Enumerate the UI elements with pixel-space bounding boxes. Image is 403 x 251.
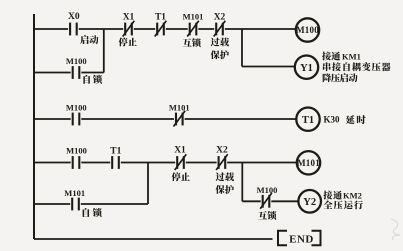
branch 3 vertical junction wire (147, 163, 149, 205)
note line 2: full-voltage run (323, 200, 363, 209)
svg-text:T1: T1 (155, 13, 166, 23)
label tingzhi (stop) rung3 (172, 172, 190, 181)
contact X1 (NC) stop rung3 (174, 146, 186, 171)
label zisuo (self-lock) (83, 75, 102, 84)
svg-text:M100: M100 (66, 102, 87, 112)
contact M101 (NO) self-hold (64, 188, 85, 210)
rung 3 wire (34, 162, 298, 164)
branch 1 vertical junction wire (103, 29, 105, 73)
svg-text:M101: M101 (64, 188, 85, 198)
contact M100 (NO) self-hold (66, 56, 87, 79)
svg-text:M101: M101 (169, 102, 190, 112)
left power rail (33, 14, 35, 239)
label baohu rung3 (216, 185, 234, 194)
contact X0 (NO) start button (68, 12, 80, 35)
Y2 branch horizontal wire (242, 200, 298, 202)
contact X2 (NC) overload protection (214, 13, 226, 37)
END right bracket (312, 231, 321, 246)
label baohu (protection) (211, 50, 229, 59)
svg-text:M100: M100 (66, 56, 87, 66)
svg-text:K30: K30 (324, 115, 341, 125)
contact M101 (NC) rung2 (169, 102, 190, 126)
svg-text:X0: X0 (68, 12, 80, 22)
Y2 branch vertical wire (241, 163, 243, 202)
svg-text:KM2: KM2 (343, 191, 362, 201)
svg-text:X2: X2 (214, 13, 226, 23)
svg-text:M100: M100 (257, 185, 278, 195)
note: K30 delay (324, 115, 366, 125)
contact T1 (NO) rung3 (110, 147, 121, 169)
contact X2 (NC) overload rung3 (216, 146, 228, 171)
contact M100 (NO) rung2 (66, 102, 87, 125)
note line 1: jietong KM1 (322, 51, 361, 61)
note line 1: jietong KM2 (323, 191, 362, 201)
label husuo (interlock) (183, 38, 201, 47)
coil M101 (297, 151, 320, 174)
svg-text:Y2: Y2 (303, 197, 316, 208)
faint scan scribble bottom right (391, 219, 400, 240)
svg-text:KM1: KM1 (342, 51, 361, 61)
coil T1 timer (296, 108, 319, 131)
svg-text:X1: X1 (123, 13, 135, 23)
svg-text:T1: T1 (110, 147, 121, 157)
coil Y1 (295, 55, 318, 78)
contact M100 (NC) interlock Y2 (257, 185, 278, 209)
Y1 branch vertical wire (241, 29, 243, 67)
svg-text:M101: M101 (297, 158, 320, 168)
coil M100 (296, 18, 319, 41)
rung 2 wire (34, 118, 297, 120)
END rung wire (34, 238, 273, 240)
note line 2: series auto-transformer (323, 62, 391, 71)
svg-text:X1: X1 (174, 146, 186, 156)
contact T1 (NC) (155, 13, 167, 37)
contact M100 (NO) rung3 (66, 146, 87, 169)
contact X1 (NC) stop button (123, 13, 135, 37)
branch 3 wire (self-hold) (34, 203, 148, 205)
svg-text:M100: M100 (66, 146, 87, 156)
svg-text:END: END (289, 233, 314, 245)
svg-text:M101: M101 (183, 12, 204, 22)
note line 3: reduced-voltage start (323, 73, 358, 82)
label zisuo rung3 (83, 208, 102, 217)
svg-text:M100: M100 (296, 25, 319, 35)
svg-text:X2: X2 (216, 146, 228, 156)
contact M101 (NC) interlock (183, 12, 204, 37)
label guozai rung3 (216, 172, 234, 181)
label guozai (overload) (211, 38, 229, 47)
svg-text:T1: T1 (302, 115, 314, 126)
label tingzhi (stop) (119, 37, 137, 46)
coil Y2 (298, 190, 321, 213)
rung 1 wire (34, 28, 296, 30)
svg-text:Y1: Y1 (300, 63, 313, 74)
Y1 branch horizontal wire (242, 66, 296, 68)
label qidong (start) (80, 35, 98, 44)
label husuo Y2 (258, 211, 276, 220)
branch 1 wire (self-hold) (34, 72, 104, 74)
END left bracket (278, 231, 287, 246)
